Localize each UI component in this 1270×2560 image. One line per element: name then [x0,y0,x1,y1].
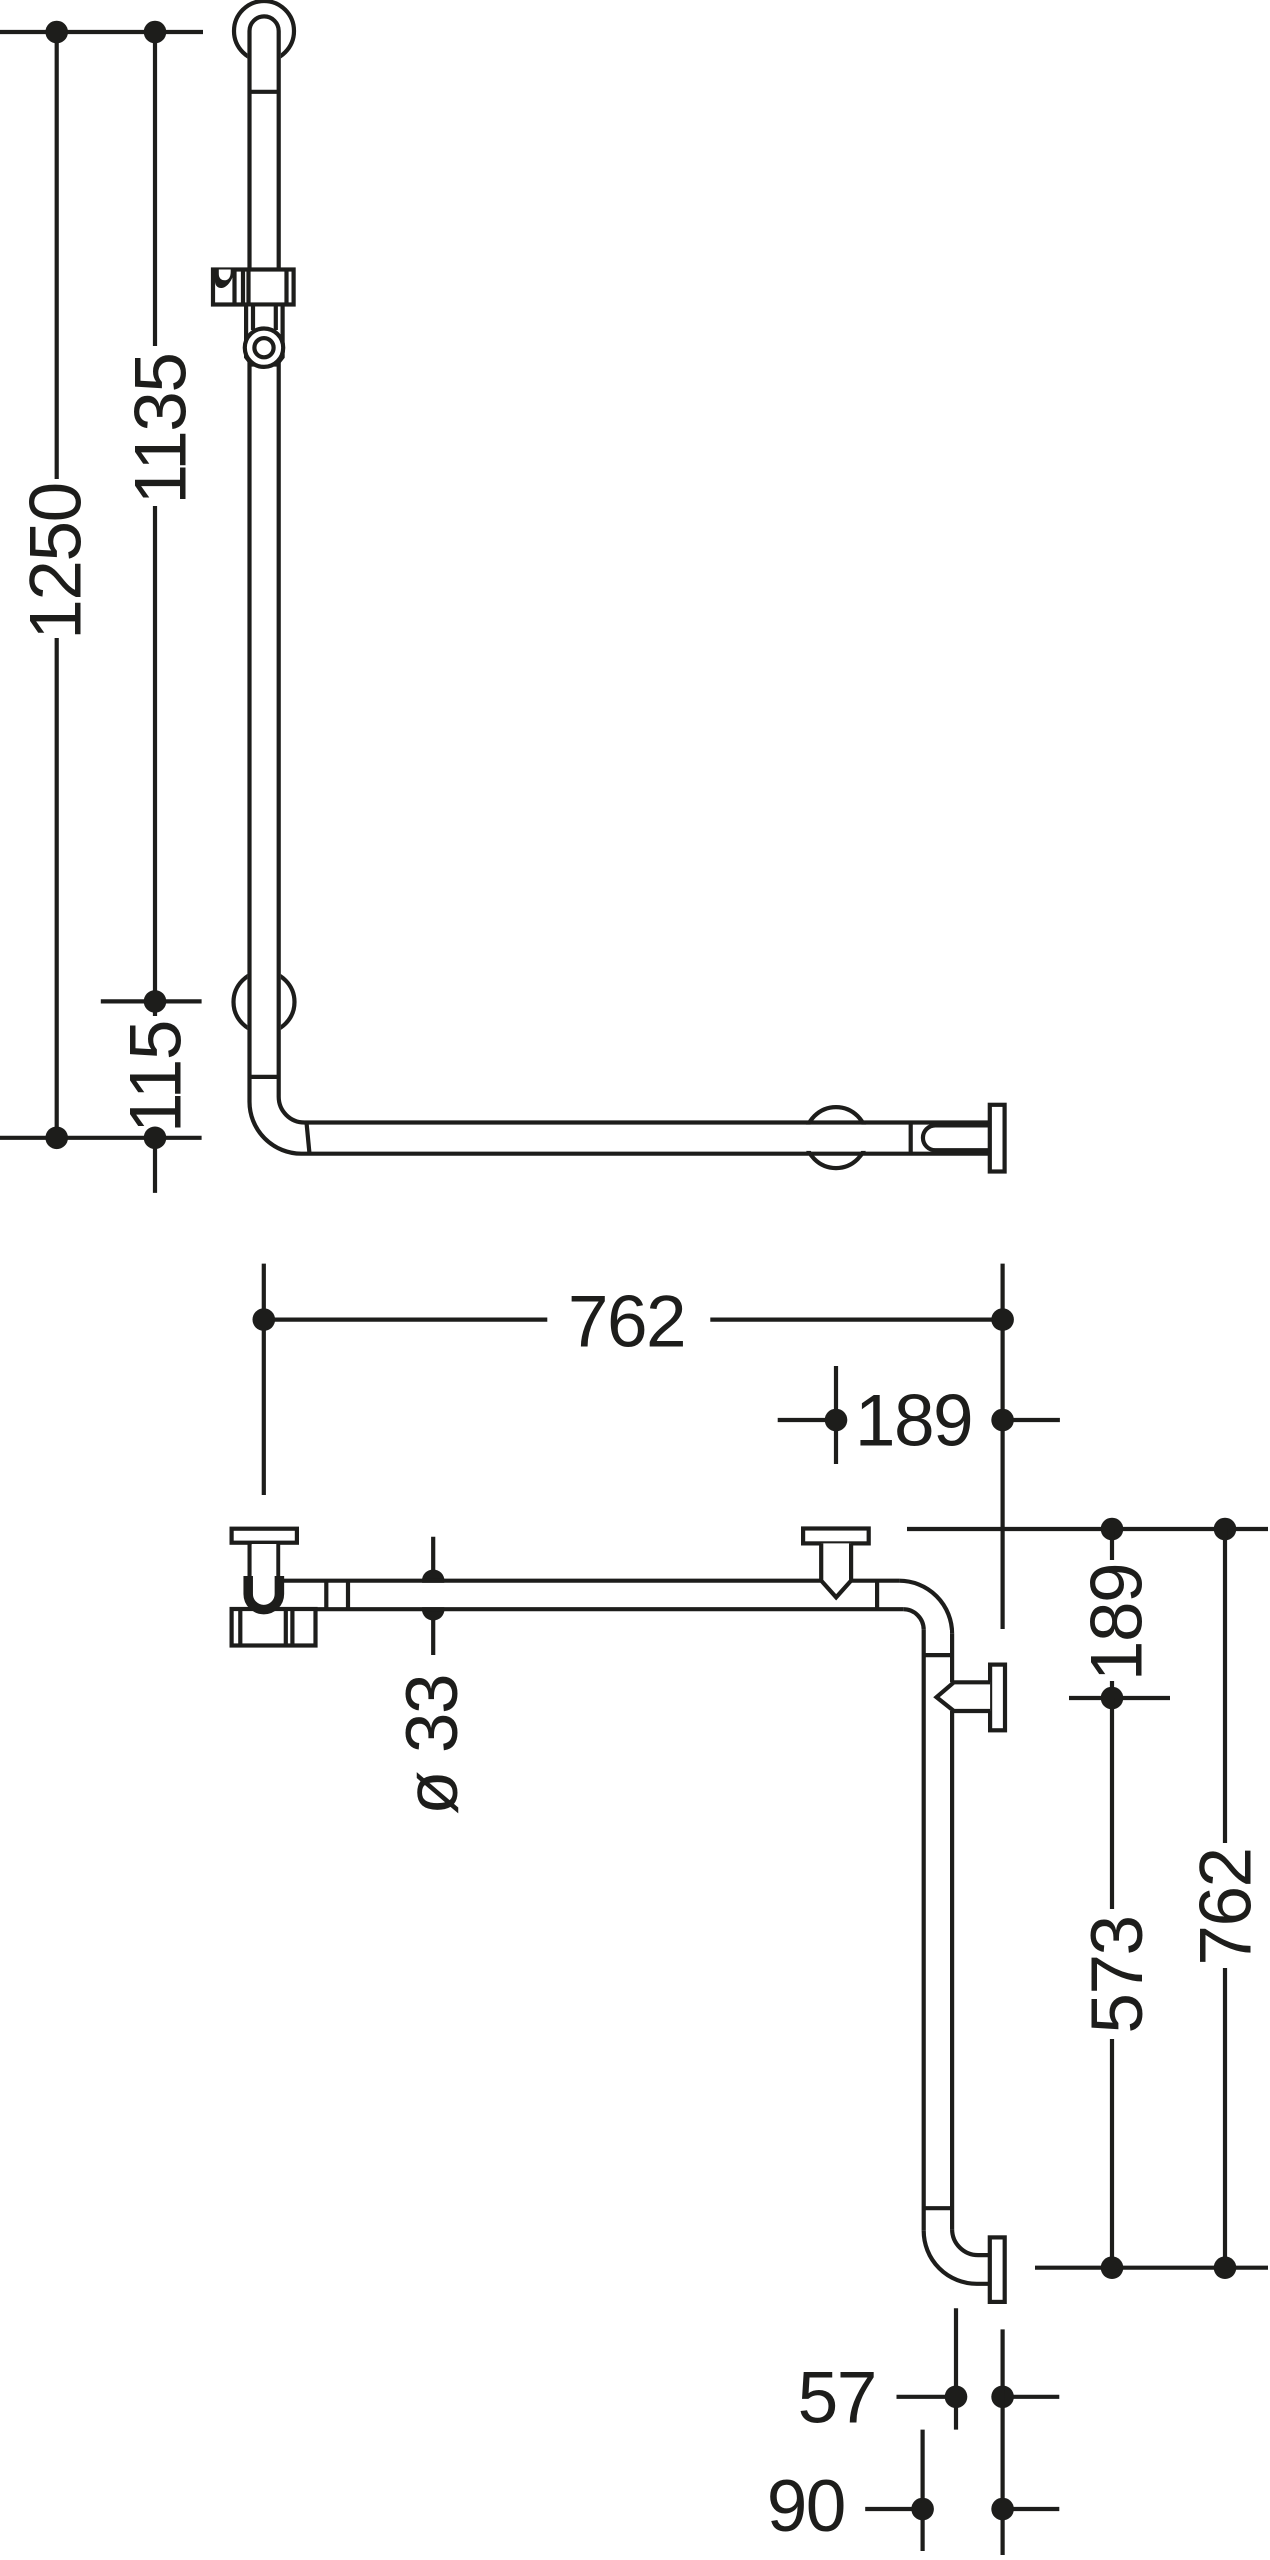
holder hook white notch [219,270,231,281]
tick at y=1001.4 [101,999,202,1003]
dot (1002.6,2396.8) [991,2386,1014,2409]
plan left post lines [250,1543,279,1578]
seam at end of elbow bend [307,1123,310,1154]
seam on horizontal rail near right end [909,1123,913,1154]
dot (1225,2267.7) [1214,2256,1237,2279]
plan mid flange post with arrow [821,1543,851,1597]
dim 189 top tick right [1013,1418,1060,1422]
dim 57 tick left [897,2395,957,2399]
tube white fill (horizontal) [270,1125,990,1151]
dot (922.6,2509) [911,2498,934,2521]
tick y=1698 [1069,1696,1170,1700]
dot (433.2,1580.8) [422,1570,445,1593]
svg-text:ø 33: ø 33 [392,1675,473,1815]
dim 90 left vertical [920,2430,924,2551]
plan mid flange plate [803,1529,869,1544]
dot (836,1420) [825,1409,848,1432]
dot (1112,2267.7) [1101,2256,1124,2279]
dot (263.8,1319.6) [252,1308,275,1331]
plan vertical tube left edge [922,1630,926,2231]
svg-text:762: 762 [568,1281,685,1362]
dim right vertical x=1002.6 bottom [1000,2329,1004,2555]
wall flange circle at elbow [234,972,295,1033]
dot (56.7,1137.8) [45,1127,68,1150]
dim 762 right vertical [1223,1529,1227,2268]
plan left flange plate [232,1529,297,1543]
dot (155,1137.8) [144,1127,167,1150]
dot (433.2,1609.2) [422,1598,445,1621]
svg-text:57: 57 [798,2357,876,2438]
dot (155,1001.4) [144,990,167,1013]
svg-text:1135: 1135 [121,354,202,505]
tube seam above elbow [250,1075,279,1079]
dim 115 vertical line [153,1001,157,1193]
plan seam b [346,1581,350,1610]
vertical shower rail tube outline [250,16,990,1153]
extension line x=263.8 above 762 [262,1264,266,1495]
holder bracket inner line c [246,268,250,305]
dim 189 right vertical [1110,1529,1114,1698]
svg-text:189: 189 [1077,1564,1158,1681]
plan vertical tube white fill [926,1630,950,2282]
dot (956,2396.8) [945,2386,968,2409]
dot (155,32) [144,21,167,44]
dot (1002.6,2509) [991,2498,1014,2521]
reference line y=1529 [907,1527,1268,1531]
svg-text:115: 115 [115,1021,196,1133]
plan bottom elbow inner arc [952,2229,990,2255]
plan right flange plate [990,1665,1005,1731]
plan tube bottom edge [316,1607,904,1611]
dot (1112,1698) [1101,1687,1124,1710]
dot (1002.6,1420) [991,1409,1014,1432]
plan bottom wall plate [990,2237,1005,2302]
dim 57 tick right [1003,2395,1060,2399]
dim 57 left vertical [954,2308,958,2429]
wall flange circle right [806,1107,867,1168]
svg-text:1250: 1250 [15,483,96,639]
holder knob outer circle [245,329,283,367]
svg-text:189: 189 [855,1380,972,1461]
plan seam a [324,1581,328,1610]
svg-text:573: 573 [1077,1916,1158,2033]
plan right flange post with arrow [937,1682,991,1711]
holder bracket inner line d [284,268,288,305]
plan seam bottom [924,2206,952,2210]
dot (1225,1529) [1214,1518,1237,1541]
dim 189 top: stub above left dot [834,1366,838,1464]
dot (1002.6,1319.6) [991,1308,1014,1331]
dim 573 vertical [1110,1698,1114,2268]
plan tube top edge [278,1579,899,1583]
plan bracket inner line a [238,1609,242,1646]
wall flange circle top [234,1,294,61]
plan bend inner arc [903,1609,924,1630]
extension line x=1002.6 [1000,1264,1004,1629]
plan seam on vertical tube [924,1653,952,1657]
sleeve inner line right [274,307,278,331]
holder knob inner circle [254,338,273,357]
wall plate right (elevation) [990,1105,1005,1172]
dim 1250 vertical line [55,32,59,1138]
dot (1112,1529) [1101,1518,1124,1541]
dim 189 top tick left [778,1418,836,1422]
plan seam before bend [875,1581,879,1610]
sleeve inner line left [251,307,255,331]
plan bottom elbow outer arc [924,2231,990,2284]
svg-text:762: 762 [1185,1848,1266,1965]
svg-text:90: 90 [767,2466,845,2547]
plan left post white core upper [252,1544,277,1578]
holder hook dark crescent [215,270,235,289]
plan tube white fill horizontal [279,1583,903,1607]
plan bracket inner line b [284,1609,288,1646]
dim 762 top line [264,1317,1003,1321]
plan vertical tube right edge [950,1634,954,2229]
inner rounded cone at right end [923,1125,990,1150]
dim 90 tick right [1003,2507,1060,2511]
dimension line top (y=32) [0,30,203,34]
dim 1135 vertical line [153,32,157,1001]
shower head holder bracket [213,270,294,305]
plan holder bracket [232,1609,316,1646]
dot (56.7,32) [45,21,68,44]
baseline tick at y=1137.8 [0,1136,202,1140]
plan left post rounded cap (thick) [248,1576,279,1610]
holder sleeve [246,307,283,365]
holder bracket inner line a [232,268,236,305]
reference line y=2267.7 [1035,2266,1268,2270]
dim ø33 tick line [431,1537,435,1655]
tube seam below cap [250,90,279,94]
plan bend outer arc [899,1581,952,1634]
plan bracket inner line c [290,1609,294,1646]
dim 90 tick left [865,2507,922,2511]
tube white fill (vertical) [247,15,280,1125]
holder bracket inner line b [241,268,245,305]
